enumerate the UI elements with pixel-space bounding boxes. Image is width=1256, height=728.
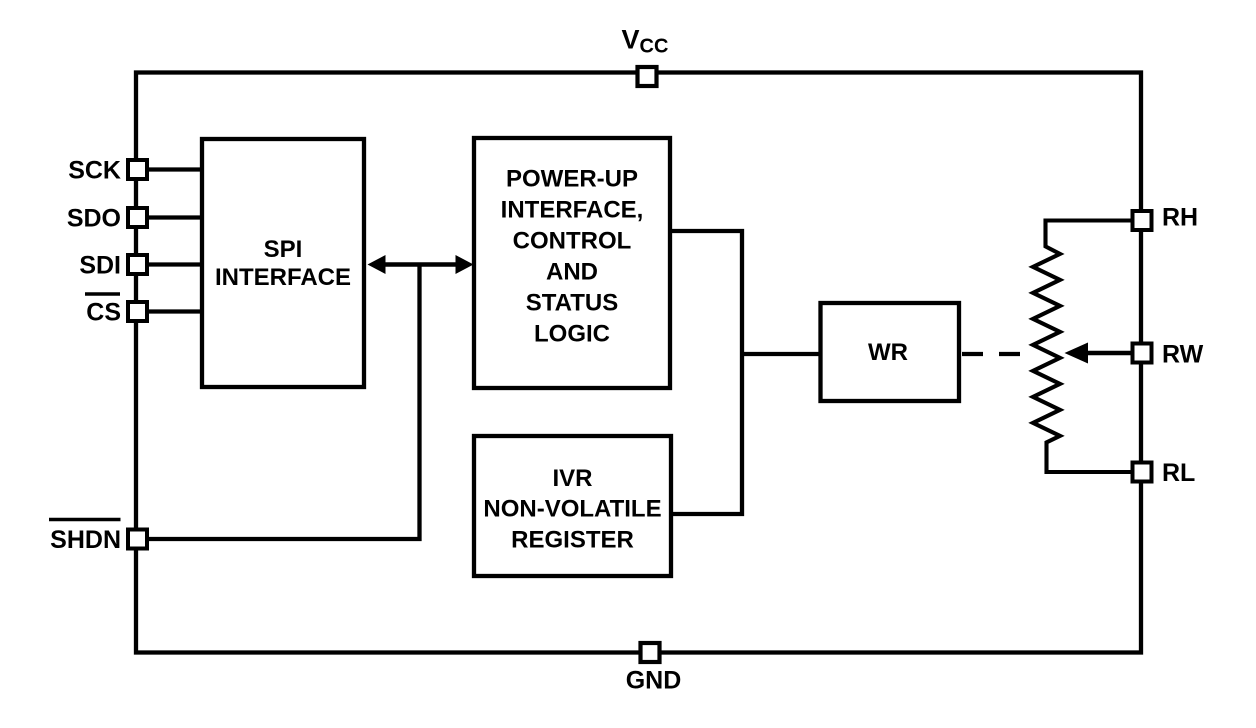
svg-text:CS: CS bbox=[86, 299, 121, 327]
svg-text:STATUS: STATUS bbox=[526, 290, 618, 317]
wire POWER-UP to IVR bbox=[670, 231, 742, 514]
pin RL bbox=[1133, 463, 1152, 482]
svg-text:INTERFACE,: INTERFACE, bbox=[501, 197, 644, 224]
svg-text:POWER-UP: POWER-UP bbox=[506, 166, 638, 193]
svg-text:REGISTER: REGISTER bbox=[511, 527, 634, 554]
svg-text:NON-VOLATILE: NON-VOLATILE bbox=[483, 496, 661, 523]
block WR bbox=[821, 303, 960, 401]
label SHDN with overline bbox=[49, 520, 121, 555]
svg-text:INTERFACE: INTERFACE bbox=[215, 264, 351, 291]
pin SDO bbox=[128, 208, 147, 227]
svg-text:LOGIC: LOGIC bbox=[534, 321, 610, 348]
pin SCK bbox=[128, 160, 147, 179]
svg-text:WR: WR bbox=[868, 339, 908, 366]
pin SHDN bbox=[128, 530, 147, 549]
svg-text:SPI: SPI bbox=[264, 236, 303, 263]
bidirectional bus arrow SPI to POWER-UP bbox=[368, 255, 474, 274]
pin RW bbox=[1133, 344, 1152, 363]
wire SHDN bbox=[145, 265, 420, 540]
pin RH bbox=[1133, 211, 1152, 230]
wire SCK bbox=[145, 167, 204, 171]
label CS with overline bbox=[85, 294, 121, 327]
resistor RH-RL bbox=[1033, 221, 1133, 473]
svg-text:GND: GND bbox=[626, 667, 682, 695]
svg-text:SHDN: SHDN bbox=[50, 526, 121, 554]
svg-text:RL: RL bbox=[1162, 459, 1195, 487]
wire CS bbox=[145, 309, 204, 313]
pin SDI bbox=[128, 255, 147, 274]
wire SDO bbox=[145, 215, 204, 219]
wire SDI bbox=[145, 262, 204, 266]
svg-text:AND: AND bbox=[546, 259, 598, 286]
svg-text:IVR: IVR bbox=[552, 465, 592, 492]
svg-text:SDI: SDI bbox=[79, 252, 121, 280]
block IVR NON-VOLATILE REGISTER bbox=[474, 436, 671, 576]
dashed wiper control line WR to resistor bbox=[962, 352, 1021, 356]
svg-text:SCK: SCK bbox=[68, 157, 121, 185]
svg-text:SDO: SDO bbox=[67, 205, 121, 233]
wiper arrow RW bbox=[1065, 343, 1133, 364]
pin CS bbox=[128, 302, 147, 321]
chip boundary U1 bbox=[136, 73, 1141, 653]
svg-text:RW: RW bbox=[1162, 341, 1204, 369]
pin VCC bbox=[638, 67, 657, 86]
svg-text:RH: RH bbox=[1162, 204, 1198, 232]
block SPI INTERFACE bbox=[202, 139, 364, 387]
block POWER-UP CONTROL AND STATUS LOGIC bbox=[474, 138, 670, 388]
svg-text:CONTROL: CONTROL bbox=[513, 228, 632, 255]
wire branch to WR bbox=[742, 352, 820, 356]
pin GND bbox=[641, 643, 660, 662]
